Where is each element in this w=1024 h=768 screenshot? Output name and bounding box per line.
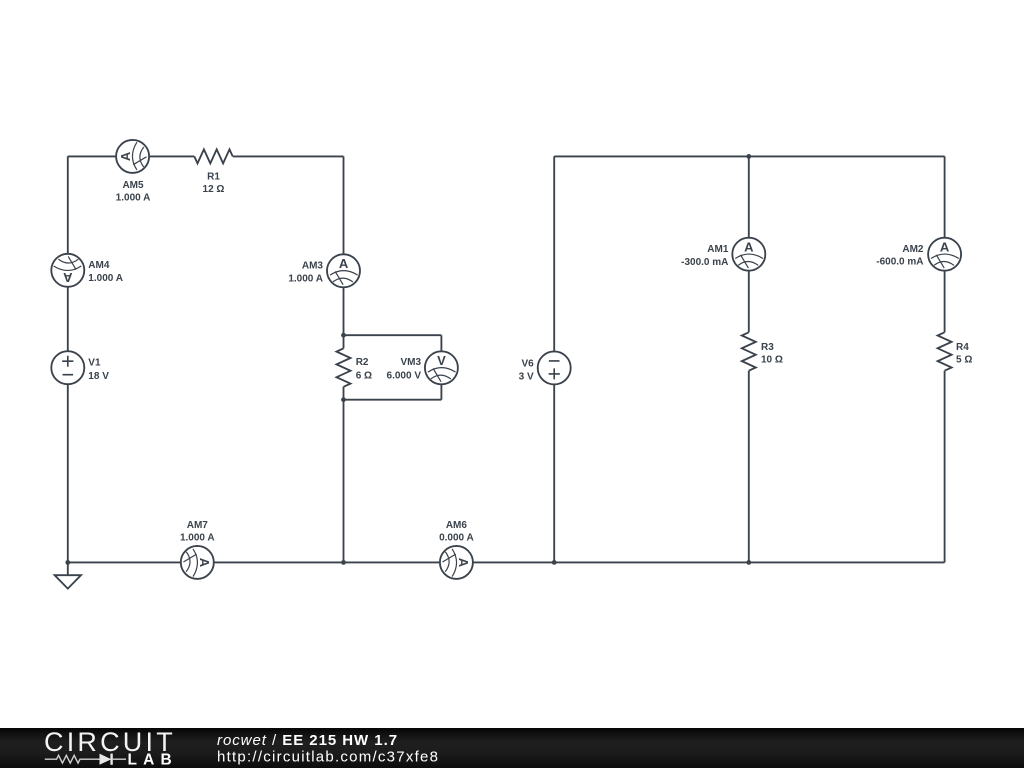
resistor R3 [742,332,783,370]
svg-text:1.000 A: 1.000 A [116,192,151,203]
ammeter AM2 [876,238,961,271]
svg-text:R1: R1 [207,172,220,183]
junction node R3 top [746,154,751,159]
svg-text:1.000 A: 1.000 A [180,533,215,544]
wire middle column lower vertical [343,387,345,563]
ammeter AM4 [51,254,123,287]
wire R4 column upper vertical [944,156,946,332]
ammeter AM1 [681,238,765,271]
junction node middle column bottom [341,560,346,565]
wire R1 to middle column corner [233,155,344,157]
resistor R4 [938,332,973,370]
svg-text:6.000 V: 6.000 V [387,371,422,382]
svg-text:-600.0 mA: -600.0 mA [876,256,923,267]
svg-text:V6: V6 [521,358,534,369]
svg-text:AM2: AM2 [902,244,924,255]
wire V6 column vertical [553,156,555,562]
wire VM3 branch bottom horizontal [344,399,442,401]
svg-text:VM3: VM3 [400,357,421,368]
svg-text:AM7: AM7 [187,520,209,531]
svg-text:R2: R2 [356,357,369,368]
svg-text:AM1: AM1 [707,244,729,255]
svg-text:AM5: AM5 [122,180,144,191]
svg-text:18 V: 18 V [88,371,109,382]
resistor R2 [337,348,373,386]
svg-text:6 Ω: 6 Ω [356,371,372,382]
wire R3 column lower vertical [748,371,750,563]
svg-text:rocwet / EE 215 HW 1.7: rocwet / EE 215 HW 1.7 [217,732,398,749]
wire R3 column upper vertical [748,156,750,332]
wire middle column upper vertical [343,156,345,348]
svg-text:AM3: AM3 [302,260,324,271]
svg-text:10 Ω: 10 Ω [761,354,783,365]
wire top-right horizontal [554,155,944,157]
svg-text:0.000 A: 0.000 A [439,532,474,543]
voltage source V1 [51,351,109,384]
junction node V6 bottom [552,560,557,565]
ammeter AM7 [180,520,215,579]
svg-text:5 Ω: 5 Ω [956,354,972,365]
ammeter AM5 [116,140,151,203]
svg-text:3 V: 3 V [519,372,534,383]
svg-text:1.000 A: 1.000 A [88,273,123,284]
svg-text:R3: R3 [761,342,774,353]
ammeter AM6 [439,520,474,579]
junction node ground [65,560,70,565]
logo resistor-diode glyph [45,754,126,765]
resistor R1 [194,149,232,194]
ground [55,562,81,588]
junction node R2 top [341,333,346,338]
svg-text:http://circuitlab.com/c37xfe8: http://circuitlab.com/c37xfe8 [217,748,439,765]
svg-text:-300.0 mA: -300.0 mA [681,257,728,268]
wire bottom bus [68,561,945,563]
wire VM3 branch vertical [440,335,442,400]
svg-text:12 Ω: 12 Ω [203,184,225,195]
wire R4 column lower vertical [944,371,946,563]
svg-text:1.000 A: 1.000 A [288,274,323,285]
junction node R3 bottom [746,560,751,565]
svg-text:AM6: AM6 [446,520,468,531]
ammeter AM3 [288,254,360,287]
svg-text:V1: V1 [88,358,101,369]
svg-text:LAB: LAB [128,752,178,768]
wire left rail vertical [67,156,69,562]
wire top-left horizontal (corner to R1) [68,155,195,157]
footer bar [0,728,1024,768]
wire VM3 branch top horizontal [344,334,442,336]
voltage source V6 [519,351,571,384]
svg-text:AM4: AM4 [88,260,110,271]
voltmeter VM3 [387,351,458,384]
svg-text:R4: R4 [956,342,969,353]
junction node R2 bottom [341,397,346,402]
